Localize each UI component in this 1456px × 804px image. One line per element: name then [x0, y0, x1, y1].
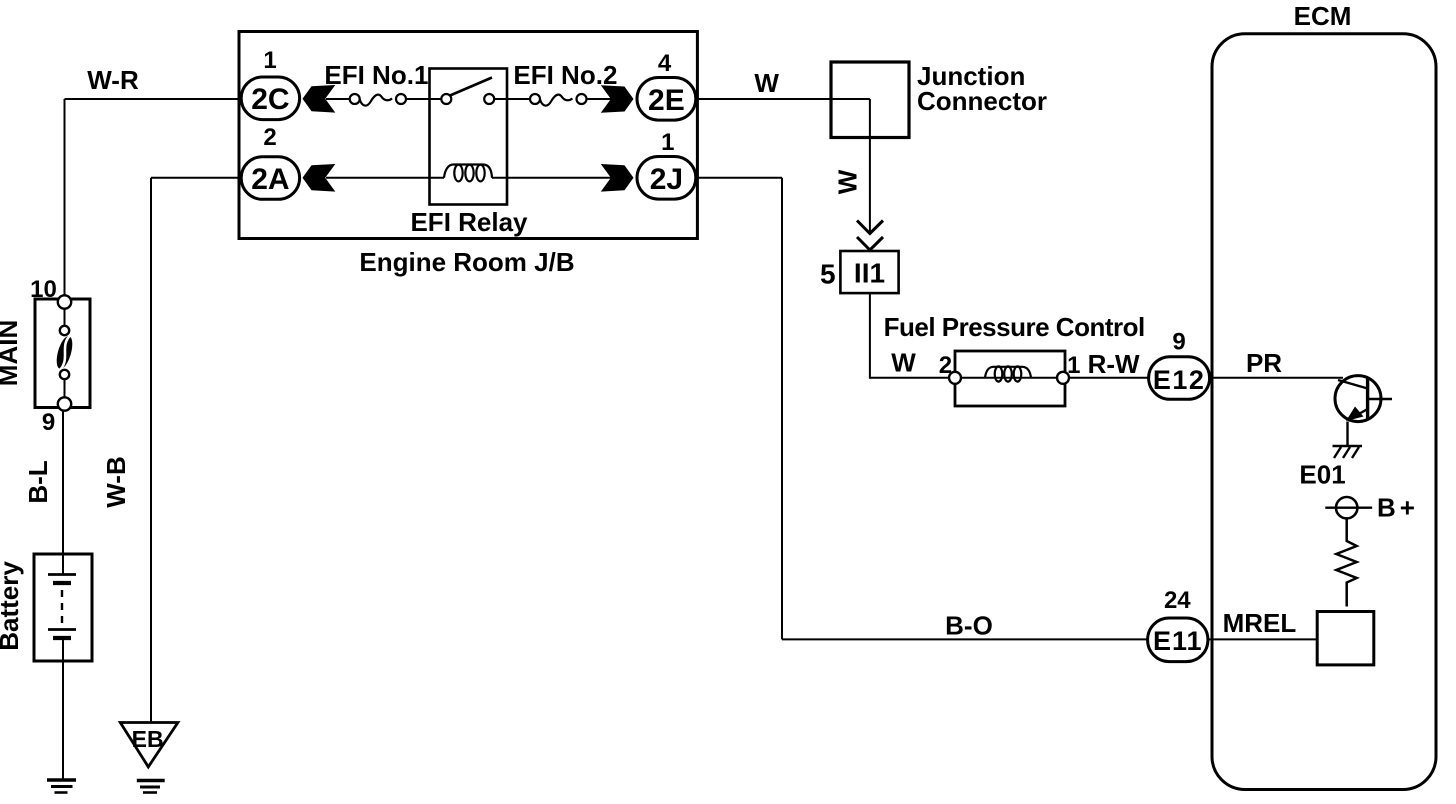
svg-text:2E: 2E [648, 84, 685, 117]
svg-text:W-B: W-B [101, 456, 131, 507]
svg-text:ECM: ECM [1294, 1, 1352, 31]
svg-text:B-L: B-L [23, 460, 53, 503]
svg-text:W: W [891, 347, 916, 377]
svg-text:5: 5 [820, 258, 836, 289]
svg-text:E12: E12 [1153, 365, 1206, 395]
svg-text:2C: 2C [251, 83, 289, 116]
svg-text:1: 1 [661, 129, 674, 156]
svg-text:Fuel Pressure Control: Fuel Pressure Control [884, 312, 1145, 342]
svg-text:W: W [754, 68, 779, 98]
svg-text:1: 1 [263, 47, 276, 74]
svg-text:B+: B+ [1377, 493, 1419, 523]
svg-text:Connector: Connector [917, 86, 1047, 116]
svg-text:EFI No.2: EFI No.2 [513, 60, 617, 90]
svg-text:2: 2 [263, 124, 276, 151]
svg-text:EFI Relay: EFI Relay [410, 207, 528, 237]
svg-text:24: 24 [1164, 587, 1191, 614]
svg-text:W-R: W-R [87, 65, 139, 95]
svg-text:4: 4 [658, 50, 672, 77]
svg-text:II1: II1 [854, 258, 885, 289]
svg-text:Engine Room J/B: Engine Room J/B [359, 247, 574, 277]
svg-text:E01: E01 [1299, 460, 1345, 490]
svg-text:W: W [833, 169, 863, 194]
svg-text:10: 10 [30, 276, 57, 303]
svg-text:MREL: MREL [1223, 608, 1297, 638]
svg-text:1: 1 [1067, 352, 1080, 379]
svg-text:2J: 2J [650, 163, 683, 196]
svg-text:E11: E11 [1153, 626, 1203, 656]
svg-text:2A: 2A [251, 163, 289, 196]
svg-text:EB: EB [132, 726, 164, 752]
svg-text:9: 9 [42, 409, 55, 436]
svg-text:MAIN: MAIN [0, 320, 23, 386]
svg-text:2: 2 [939, 352, 952, 379]
svg-text:EFI No.1: EFI No.1 [324, 60, 428, 90]
svg-text:Battery: Battery [0, 561, 24, 651]
svg-text:R-W: R-W [1088, 349, 1140, 379]
svg-text:PR: PR [1246, 348, 1282, 378]
svg-text:B-O: B-O [945, 611, 993, 641]
svg-text:9: 9 [1172, 329, 1185, 356]
